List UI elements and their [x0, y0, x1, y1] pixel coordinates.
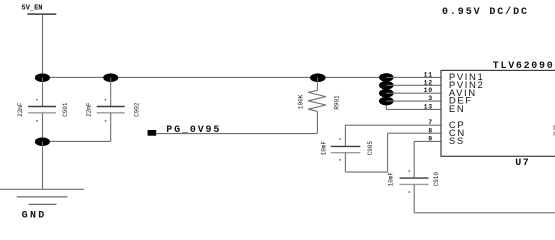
wire bottom out [414, 212, 555, 214]
resistor R901 [316, 77, 318, 90]
svg-text:C905: C905 [367, 141, 374, 156]
junction dot PVIN1 [379, 73, 394, 82]
svg-text:13: 13 [424, 104, 433, 111]
wire main rail [43, 76, 387, 78]
wire rail to C902 [110, 77, 112, 106]
svg-text:PG_0V95: PG_0V95 [166, 125, 221, 136]
wire pin 8 CN [388, 132, 441, 134]
svg-text:C902: C902 [134, 102, 141, 117]
svg-text:100K: 100K [298, 94, 305, 109]
svg-text:C901: C901 [62, 102, 69, 117]
capacitor C901 [28, 106, 56, 108]
junction dot bottom [35, 137, 50, 146]
junction dot rail/R901 [310, 73, 325, 82]
junction dot rail/C902 [103, 73, 118, 82]
wire pin 11 PVIN1 [386, 76, 441, 78]
svg-text:8: 8 [428, 127, 433, 134]
wire rail to pin stack [385, 77, 387, 109]
svg-text:SS: SS [449, 136, 465, 147]
wire C902 down [110, 113, 112, 142]
svg-text:U7: U7 [515, 158, 530, 169]
wire C910 to bottom [413, 184, 415, 212]
svg-text:3: 3 [428, 95, 433, 102]
junction dot AVIN [379, 89, 394, 98]
svg-text:10: 10 [424, 87, 433, 94]
svg-text:5V_EN: 5V_EN [22, 5, 43, 13]
svg-text:10mF: 10mF [388, 172, 395, 187]
svg-text:22mF: 22mF [86, 102, 93, 117]
wire rail to C901 [42, 77, 44, 106]
IC U7 box [441, 70, 555, 156]
svg-text:EN: EN [449, 104, 465, 115]
svg-text:9: 9 [428, 136, 433, 143]
clipped right-side pin label marks [553, 125, 555, 130]
power bar 5V_EN [27, 13, 56, 15]
svg-text:7: 7 [428, 119, 433, 126]
junction dot DEF [379, 97, 394, 106]
port PG_0V95 [148, 130, 157, 136]
capacitor C910 [400, 177, 429, 179]
wire power bar to rail [42, 14, 44, 77]
svg-text:C910: C910 [433, 172, 440, 187]
svg-text:22mF: 22mF [17, 102, 24, 117]
junction dot rail/C901 [35, 73, 50, 82]
wire C902 bottom to junction [42, 140, 111, 142]
wire junction to ground [42, 141, 44, 189]
wire pin 9 SS [414, 140, 441, 142]
wire pin 12 PVIN2 [386, 84, 441, 86]
svg-text:R901: R901 [333, 95, 340, 110]
wire pin 3 DEF [386, 100, 441, 102]
ground [0, 188, 84, 190]
wire pin 7 CP [345, 124, 441, 126]
svg-text:11: 11 [424, 71, 433, 78]
capacitor C902 [97, 106, 125, 108]
svg-text:GND: GND [22, 210, 47, 221]
junction dot PVIN2 [379, 81, 394, 90]
wire pin 13 EN [386, 108, 441, 110]
wire C901 to bottom junction [42, 113, 44, 142]
wire PG_0V95 to resistor [156, 133, 317, 135]
svg-text:10mF: 10mF [320, 141, 327, 156]
svg-text:12: 12 [424, 79, 433, 86]
capacitor C905 [331, 145, 361, 147]
svg-text:TLV62090: TLV62090 [493, 61, 555, 72]
wire pin 10 AVIN [386, 92, 441, 94]
svg-text:0.95V DC/DC: 0.95V DC/DC [442, 6, 529, 18]
